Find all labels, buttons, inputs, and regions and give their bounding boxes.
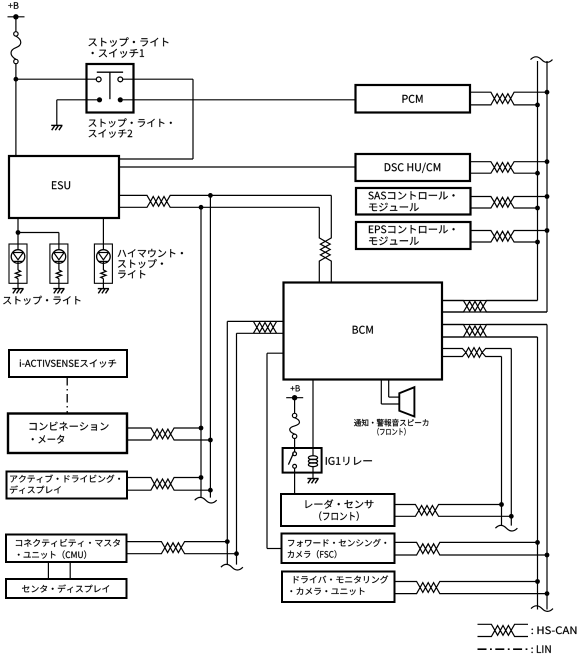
label radar sensor — [306, 499, 374, 521]
ESU box — [9, 156, 119, 218]
wire — [17, 218, 19, 233]
switch contact open 2 — [118, 77, 123, 82]
bus terminator top — [531, 57, 553, 63]
power +B node — [8, 14, 25, 19]
wire — [312, 467, 314, 479]
label SAS module — [368, 191, 454, 211]
label speaker — [354, 419, 428, 436]
node junction — [14, 77, 19, 82]
ground — [51, 125, 62, 130]
node junction — [545, 194, 550, 199]
node junction — [208, 488, 213, 493]
driver monitoring box — [282, 572, 395, 603]
bus wire vertical E — [510, 349, 512, 526]
wire — [294, 468, 296, 494]
bus HS-CAN right upper-right wire — [442, 61, 547, 312]
bus HS-CAN right lower-right wire — [442, 325, 547, 610]
twisted pair active driving display — [127, 478, 210, 491]
label center display — [22, 585, 109, 593]
label driver monitoring — [290, 576, 388, 596]
lamp stop-light 1 — [9, 244, 27, 293]
twisted pair BCM right1 — [442, 301, 547, 313]
label ESU — [52, 181, 70, 189]
CMU box — [6, 535, 127, 563]
legend LIN symbol — [478, 648, 529, 650]
label FSC — [288, 539, 386, 559]
wire — [15, 17, 17, 32]
wire — [15, 79, 17, 156]
twisted pair EPS — [471, 231, 548, 243]
node junction — [509, 514, 514, 519]
twisted pair vertical to BCM — [319, 195, 331, 282]
legend HS-CAN symbol — [478, 624, 529, 636]
radar sensor box — [281, 494, 395, 526]
wire — [119, 79, 193, 159]
twisted pair radar — [395, 505, 512, 517]
node junction — [535, 206, 540, 211]
node junction — [199, 426, 204, 431]
bus terminator — [195, 497, 217, 503]
i-ACTIVSENSE switch box — [9, 350, 127, 377]
twisted pair HS-CAN ESU — [119, 195, 331, 207]
power +B node IG1 — [286, 395, 303, 400]
bus terminator — [495, 525, 517, 531]
bus wire vertical A — [200, 207, 202, 497]
fuse F1 — [11, 32, 21, 64]
node junction — [545, 159, 550, 164]
switch contact closed 1 — [97, 97, 102, 102]
DSC box — [356, 154, 471, 181]
relay IG1 box — [283, 448, 322, 473]
label BCM — [353, 326, 373, 334]
wire — [312, 380, 314, 456]
wire — [123, 99, 356, 101]
fuse F2 — [290, 413, 300, 438]
twisted pair SAS — [471, 197, 548, 209]
node junction — [208, 193, 213, 198]
relay blade — [288, 453, 293, 464]
bus terminator — [221, 564, 243, 570]
twisted pair CMU — [127, 542, 237, 554]
label stop-light-switch2 — [89, 118, 172, 138]
node junction — [535, 579, 540, 584]
wire — [381, 380, 399, 405]
label IG1 relay — [326, 457, 372, 465]
SAS box — [356, 188, 471, 215]
node junction — [535, 103, 540, 108]
wire — [102, 218, 104, 250]
node junction — [545, 553, 550, 558]
switch T bar — [97, 72, 123, 99]
wire — [294, 398, 296, 414]
wire — [294, 438, 296, 452]
node junction — [499, 502, 504, 507]
bus wire vertical D — [236, 333, 238, 564]
label CMU — [16, 539, 120, 559]
bus HS-CAN right lower-left wire — [442, 337, 538, 610]
speaker horn — [399, 387, 414, 416]
wire — [119, 166, 356, 168]
combination meter box — [8, 414, 127, 454]
ground relay — [307, 479, 318, 484]
label DSC HU/CM — [385, 163, 440, 173]
twisted pair PCM — [470, 92, 547, 105]
label high-mount — [118, 249, 183, 278]
twisted pair FSC — [395, 542, 548, 555]
twisted pair BCM left — [227, 321, 283, 333]
wire — [389, 380, 400, 398]
node junction — [535, 540, 540, 545]
lamp stop-light 2 — [50, 244, 68, 293]
relay coil — [308, 456, 317, 467]
switch contact open 1 — [96, 77, 101, 82]
label stop-light lamps — [3, 296, 80, 305]
wire — [69, 562, 71, 579]
node junction — [199, 475, 204, 480]
node junction — [208, 438, 213, 443]
twisted pair combination meter — [127, 428, 210, 440]
node junction — [535, 171, 540, 176]
bus wire vertical C — [226, 321, 228, 564]
relay contact top — [293, 452, 297, 456]
legend LIN label — [531, 645, 550, 653]
label PCM — [403, 95, 423, 103]
node junction — [545, 90, 550, 95]
node junction — [225, 539, 230, 544]
wire — [267, 353, 284, 548]
wire — [17, 233, 19, 250]
bus HS-CAN right upper-left wire — [442, 61, 538, 301]
wire — [57, 100, 97, 125]
twisted pair driver monitoring — [395, 582, 548, 594]
node junction — [234, 551, 239, 556]
wire — [18, 233, 59, 250]
relay contact bottom — [293, 464, 297, 468]
node junction — [545, 228, 550, 233]
PCM box — [356, 85, 471, 113]
lamp high-mount — [94, 244, 112, 293]
legend HS-CAN label — [532, 626, 577, 634]
wire — [15, 64, 17, 79]
label active driving display — [10, 475, 120, 494]
wire — [47, 562, 49, 579]
bus wire vertical F — [501, 357, 503, 526]
label i-ACTIVSENSE — [20, 359, 116, 367]
node junction — [545, 591, 550, 596]
twisted pair BCM right2 — [442, 325, 547, 338]
active driving display box — [7, 472, 128, 499]
power +B label IG1 — [291, 385, 300, 391]
label EPS module — [369, 225, 455, 245]
switch box stop-light — [87, 64, 134, 113]
label stop-light-switch1 — [89, 37, 169, 57]
power +B label — [8, 2, 18, 9]
twisted pair BCM right3 — [442, 348, 511, 358]
node junction — [16, 230, 21, 235]
label combination meter — [30, 422, 109, 444]
bus terminator bottom — [531, 606, 553, 612]
LIN wire dash-dot — [66, 377, 68, 414]
node junction — [535, 240, 540, 245]
switch contact closed 2 — [118, 97, 123, 102]
bus wire vertical B — [209, 195, 211, 497]
EPS box — [356, 222, 471, 249]
BCM box — [284, 283, 443, 380]
twisted pair DSC — [470, 162, 547, 174]
center display box — [6, 579, 127, 598]
wire — [16, 78, 97, 80]
FSC box — [282, 534, 395, 564]
node junction — [199, 205, 204, 210]
